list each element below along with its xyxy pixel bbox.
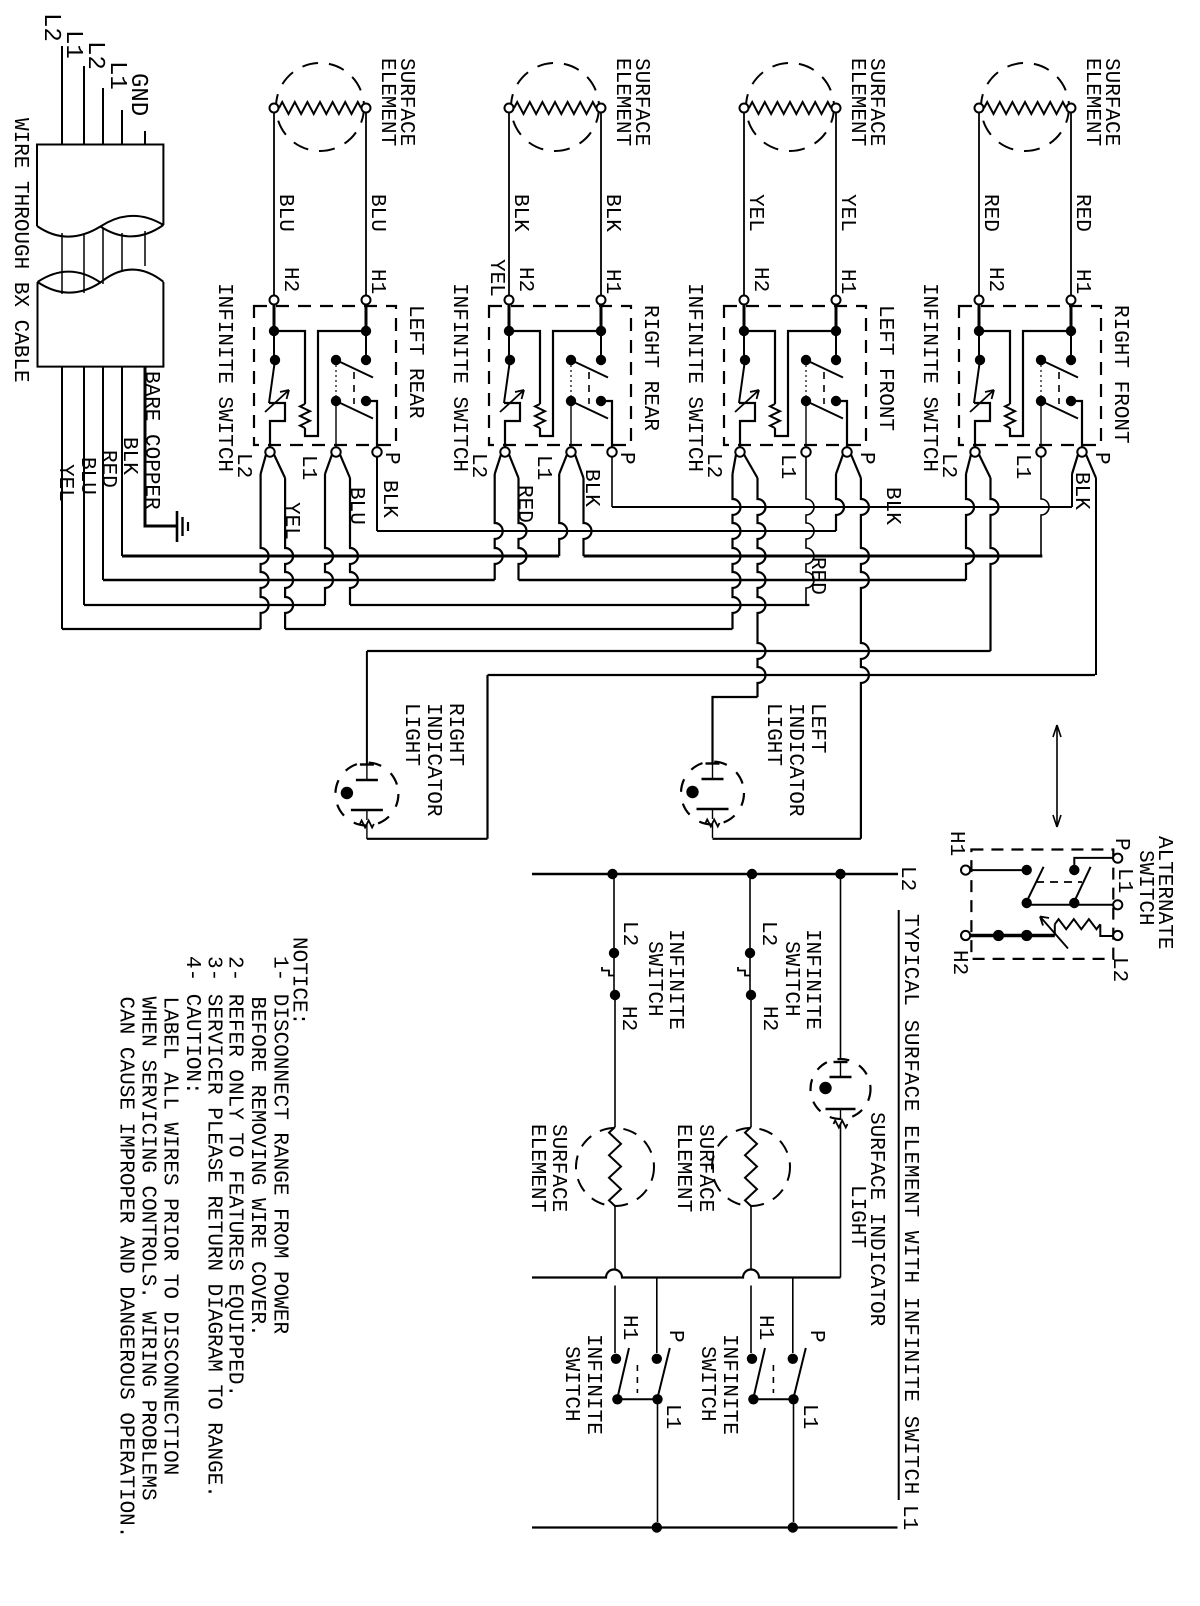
svg-text:4- CAUTION:: 4- CAUTION: bbox=[180, 956, 203, 1095]
svg-text:1- DISCONNECT RANGE FROM POWER: 1- DISCONNECT RANGE FROM POWER bbox=[267, 956, 290, 1334]
svg-text:LIGHT: LIGHT bbox=[761, 703, 784, 766]
svg-text:BEFORE REMOVING WIRE COVER.: BEFORE REMOVING WIRE COVER. bbox=[245, 997, 268, 1337]
svg-text:YEL: YEL bbox=[53, 464, 76, 502]
svg-text:2- REFER ONLY TO FEATURES EQUI: 2- REFER ONLY TO FEATURES EQUIPPED. bbox=[223, 956, 246, 1397]
svg-text:BLK: BLK bbox=[579, 469, 602, 507]
svg-text:L1: L1 bbox=[296, 455, 319, 480]
svg-text:H2: H2 bbox=[513, 267, 536, 292]
svg-text:GND: GND bbox=[124, 73, 151, 116]
svg-text:RED: RED bbox=[512, 485, 535, 523]
svg-text:BLU: BLU bbox=[273, 194, 296, 232]
svg-text:P: P bbox=[1109, 838, 1132, 851]
svg-text:H2: H2 bbox=[947, 950, 970, 975]
svg-text:BLK: BLK bbox=[508, 194, 531, 232]
svg-text:L1: L1 bbox=[897, 1505, 920, 1530]
svg-text:INDICATOR: INDICATOR bbox=[783, 703, 806, 817]
svg-text:ELEMENT: ELEMENT bbox=[1080, 58, 1103, 146]
svg-text:H1: H1 bbox=[617, 1315, 640, 1340]
svg-text:YEL: YEL bbox=[835, 194, 858, 232]
svg-text:LIGHT: LIGHT bbox=[845, 1185, 868, 1248]
svg-text:YEL: YEL bbox=[279, 502, 302, 540]
svg-text:H1: H1 bbox=[944, 831, 967, 856]
svg-text:SWITCH: SWITCH bbox=[642, 941, 665, 1017]
svg-text:INFINITE SWITCH: INFINITE SWITCH bbox=[212, 283, 235, 472]
svg-text:L2: L2 bbox=[895, 866, 918, 891]
svg-text:H1: H1 bbox=[1070, 269, 1093, 294]
svg-text:H2: H2 bbox=[616, 1006, 639, 1031]
svg-text:P: P bbox=[1089, 452, 1112, 465]
svg-text:LEFT REAR: LEFT REAR bbox=[403, 305, 426, 419]
svg-text:RIGHT FRONT: RIGHT FRONT bbox=[1108, 305, 1131, 444]
svg-text:BLK: BLK bbox=[880, 487, 903, 525]
svg-text:L2: L2 bbox=[617, 921, 640, 946]
svg-text:P: P bbox=[804, 1330, 827, 1343]
svg-text:BLU: BLU bbox=[75, 457, 98, 495]
svg-text:SWITCH: SWITCH bbox=[559, 1346, 582, 1422]
svg-text:BLK: BLK bbox=[117, 437, 140, 475]
svg-text:LIGHT: LIGHT bbox=[399, 703, 422, 766]
svg-text:P: P bbox=[614, 452, 637, 465]
svg-text:INFINITE SWITCH: INFINITE SWITCH bbox=[917, 283, 940, 472]
svg-text:H1: H1 bbox=[365, 269, 388, 294]
svg-text:L2: L2 bbox=[936, 453, 959, 478]
svg-text:BLU: BLU bbox=[365, 194, 388, 232]
svg-text:RED: RED bbox=[805, 557, 828, 595]
svg-text:LEFT: LEFT bbox=[805, 703, 828, 753]
svg-text:LEFT FRONT: LEFT FRONT bbox=[873, 305, 896, 431]
svg-text:L1: L1 bbox=[775, 454, 798, 479]
svg-text:WHEN SERVICING CONTROLS. WIRIN: WHEN SERVICING CONTROLS. WIRING PROBLEMS bbox=[136, 997, 159, 1501]
svg-text:YEL: YEL bbox=[743, 194, 766, 232]
svg-text:SWITCH: SWITCH bbox=[779, 941, 802, 1017]
svg-text:H1: H1 bbox=[753, 1315, 776, 1340]
svg-text:L1: L1 bbox=[531, 455, 554, 480]
svg-text:INDICATOR: INDICATOR bbox=[421, 703, 444, 817]
svg-text:YEL: YEL bbox=[484, 259, 507, 297]
svg-text:L2: L2 bbox=[701, 453, 724, 478]
svg-text:LABEL ALL WIRES PRIOR TO DISCO: LABEL ALL WIRES PRIOR TO DISCONNECTION bbox=[158, 997, 181, 1476]
svg-text:INFINITE: INFINITE bbox=[717, 1334, 740, 1435]
svg-text:H2: H2 bbox=[748, 267, 771, 292]
svg-text:ELEMENT: ELEMENT bbox=[375, 58, 398, 146]
svg-text:BLK: BLK bbox=[1069, 472, 1092, 510]
svg-text:RED: RED bbox=[96, 450, 119, 488]
svg-text:RIGHT REAR: RIGHT REAR bbox=[638, 305, 661, 431]
svg-text:BLK: BLK bbox=[600, 194, 623, 232]
svg-text:3- SERVICER PLEASE RETURN DIAG: 3- SERVICER PLEASE RETURN DIAGRAM TO RAN… bbox=[201, 956, 224, 1498]
svg-text:TYPICAL SURFACE ELEMENT WITH I: TYPICAL SURFACE ELEMENT WITH INFINITE SW… bbox=[898, 914, 921, 1495]
svg-text:BLK: BLK bbox=[377, 480, 400, 518]
svg-text:INFINITE: INFINITE bbox=[581, 1334, 604, 1435]
svg-text:BARE COPPER: BARE COPPER bbox=[139, 371, 162, 510]
svg-text:INFINITE SWITCH: INFINITE SWITCH bbox=[447, 283, 470, 472]
svg-text:L1: L1 bbox=[797, 1404, 820, 1429]
svg-text:RIGHT: RIGHT bbox=[443, 703, 466, 766]
svg-text:ELEMENT: ELEMENT bbox=[671, 1124, 694, 1212]
svg-text:ELEMENT: ELEMENT bbox=[525, 1124, 548, 1212]
svg-text:RED: RED bbox=[978, 194, 1001, 232]
svg-text:H2: H2 bbox=[983, 267, 1006, 292]
svg-text:L2: L2 bbox=[1107, 957, 1130, 982]
svg-text:H2: H2 bbox=[278, 267, 301, 292]
svg-text:P: P bbox=[379, 452, 402, 465]
svg-text:BLU: BLU bbox=[344, 487, 367, 525]
svg-text:H1: H1 bbox=[600, 269, 623, 294]
svg-text:L2: L2 bbox=[756, 921, 779, 946]
svg-text:INFINITE: INFINITE bbox=[663, 929, 686, 1030]
svg-text:SWITCH: SWITCH bbox=[1133, 850, 1156, 926]
svg-text:ELEMENT: ELEMENT bbox=[845, 58, 868, 146]
svg-text:L1: L1 bbox=[660, 1404, 683, 1429]
svg-text:WIRE THROUGH BX CABLE: WIRE THROUGH BX CABLE bbox=[8, 118, 31, 383]
svg-text:L1: L1 bbox=[1112, 868, 1135, 893]
svg-text:P: P bbox=[663, 1330, 686, 1343]
svg-text:ELEMENT: ELEMENT bbox=[610, 58, 633, 146]
svg-text:H2: H2 bbox=[757, 1006, 780, 1031]
svg-text:P: P bbox=[854, 452, 877, 465]
svg-text:L2: L2 bbox=[466, 453, 489, 478]
svg-text:SURFACE: SURFACE bbox=[546, 1124, 569, 1212]
svg-text:H1: H1 bbox=[835, 269, 858, 294]
svg-text:RED: RED bbox=[1070, 194, 1093, 232]
svg-text:SURFACE: SURFACE bbox=[693, 1124, 716, 1212]
svg-text:SWITCH: SWITCH bbox=[695, 1346, 718, 1422]
svg-text:INFINITE: INFINITE bbox=[800, 929, 823, 1030]
svg-text:CAN CAUSE IMPROPER AND DANGERO: CAN CAUSE IMPROPER AND DANGEROUS OPERATI… bbox=[113, 997, 136, 1539]
svg-text:INFINITE SWITCH: INFINITE SWITCH bbox=[682, 283, 705, 472]
svg-text:L1: L1 bbox=[1010, 454, 1033, 479]
svg-text:L2: L2 bbox=[231, 453, 254, 478]
